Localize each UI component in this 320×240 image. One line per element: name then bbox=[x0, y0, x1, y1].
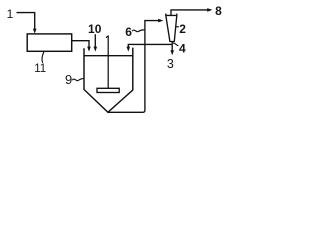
wire box-outlet bbox=[72, 41, 89, 48]
svg-text:1: 1 bbox=[7, 7, 14, 21]
wire feed-10 bbox=[94, 34, 96, 47]
leader tilde 4 bbox=[173, 43, 179, 46]
cyclone rim nub right bbox=[176, 14, 178, 16]
arrow 8 bbox=[207, 8, 212, 12]
cyclone rim nub left bbox=[165, 14, 167, 16]
svg-text:6: 6 bbox=[125, 25, 132, 39]
svg-text:11: 11 bbox=[34, 63, 46, 75]
arrow into tank left bbox=[87, 47, 91, 52]
pipe cyclone-underflow to tank bbox=[128, 44, 172, 47]
box 11 bbox=[27, 34, 71, 51]
stirrer shaft bbox=[107, 35, 109, 88]
svg-text:8: 8 bbox=[215, 4, 222, 18]
pipe recirculation tank-to-cyclone bbox=[108, 21, 158, 113]
tank rim bbox=[83, 55, 133, 57]
stirrer shaft top hook bbox=[106, 36, 108, 38]
pipe overflow to 8 bbox=[171, 10, 208, 16]
svg-text:9: 9 bbox=[65, 72, 72, 87]
tank 9 walls and cone bbox=[84, 48, 133, 113]
leader dash 2 bbox=[176, 26, 179, 28]
leader 11 bbox=[42, 52, 44, 63]
leader tilde 9 bbox=[72, 78, 84, 80]
distributor plate bbox=[97, 88, 119, 92]
leader tilde 6 bbox=[132, 30, 144, 32]
arrow into tank right bbox=[127, 47, 131, 52]
cyclone 2 body bbox=[166, 15, 177, 41]
svg-text:10: 10 bbox=[88, 22, 102, 36]
arrow into box 11 bbox=[33, 29, 37, 34]
arrow cyclone inlet bbox=[158, 19, 163, 23]
svg-text:2: 2 bbox=[179, 22, 186, 36]
svg-text:4: 4 bbox=[179, 41, 186, 55]
arrow outlet 3 bbox=[170, 50, 174, 55]
arrow into tank feed-10 bbox=[94, 47, 98, 52]
svg-text:3: 3 bbox=[167, 57, 174, 71]
pipe cyclone bottom outlet 3 bbox=[171, 42, 173, 51]
wire feed-1 bbox=[17, 13, 35, 30]
